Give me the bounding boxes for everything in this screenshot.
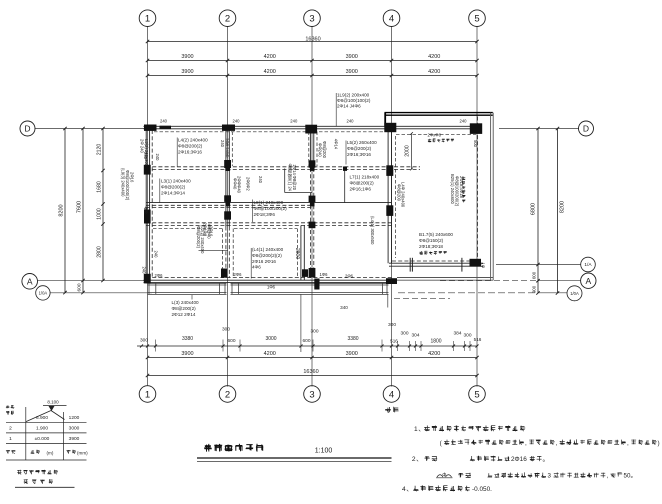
grid bubble 1/0A left xyxy=(36,286,50,300)
svg-text:,: , xyxy=(607,473,609,480)
svg-text:±0.000: ±0.000 xyxy=(35,436,50,442)
grid bubble 5 bottom xyxy=(469,386,486,403)
svg-text:Φ8@200(2): Φ8@200(2) xyxy=(196,226,201,249)
wall right outer (axis 5 side) xyxy=(490,113,492,281)
svg-text:、: 、 xyxy=(418,426,425,433)
svg-text:2Φ16: 2Φ16 xyxy=(129,172,134,183)
svg-text:A: A xyxy=(585,276,591,286)
wall interior axis 4 xyxy=(387,129,389,263)
svg-text:2Φ16 2Φ16: 2Φ16 2Φ16 xyxy=(252,259,276,264)
svg-text:A: A xyxy=(27,276,33,286)
svg-text:1800: 1800 xyxy=(430,339,441,345)
dimension chain 3900/4200/3900/4200 top row1 xyxy=(148,60,478,62)
wall eave line right of axis 4 bottom xyxy=(397,277,493,279)
wall interior axis 2 xyxy=(225,129,227,227)
beam dashed along axis A xyxy=(146,277,392,279)
svg-text:3380: 3380 xyxy=(347,336,358,342)
svg-text:1200: 1200 xyxy=(69,415,80,421)
svg-text:1/A: 1/A xyxy=(584,262,592,268)
svg-text:2Φ6: 2Φ6 xyxy=(155,273,164,278)
svg-text:4200: 4200 xyxy=(428,54,440,60)
svg-text:ΦΦ240: ΦΦ240 xyxy=(318,143,323,157)
svg-text:、: 、 xyxy=(406,486,413,493)
svg-text:6.900: 6.900 xyxy=(36,415,48,421)
beam inner dashed right room left xyxy=(395,136,397,258)
svg-text:2Φ6: 2Φ6 xyxy=(234,272,243,277)
svg-text:Φ8@100(100(2): Φ8@100(100(2) xyxy=(337,98,371,103)
svg-text:2: 2 xyxy=(225,389,230,400)
wall bottom along axis A xyxy=(144,279,398,281)
dimension line 16360 top xyxy=(148,41,478,43)
svg-text:1L9(2) 200x400: 1L9(2) 200x400 xyxy=(337,93,370,98)
svg-text:300: 300 xyxy=(140,338,148,344)
svg-text:3900: 3900 xyxy=(346,54,358,60)
note 3 hanger stirrup symbol xyxy=(436,475,453,478)
svg-text:2Φ14;3Φ14: 2Φ14;3Φ14 xyxy=(161,191,185,196)
grid bubble 1/A right xyxy=(581,257,596,272)
grid line axis 1/0A horizontal right (dashed) xyxy=(398,292,540,294)
beam horizontal y224 xyxy=(146,222,392,224)
beam interior axis 3 lower (dashed) xyxy=(309,168,311,280)
svg-text:Φ8@100/200(2): Φ8@100/200(2) xyxy=(125,170,130,201)
svg-text:Φ8@150(2): Φ8@150(2) xyxy=(419,238,444,243)
svg-text:240: 240 xyxy=(258,176,263,184)
grid line axis 3 vertical xyxy=(311,26,313,387)
beam inner dashed right room top xyxy=(396,133,476,135)
svg-text:240: 240 xyxy=(460,119,468,124)
svg-text:1/0A: 1/0A xyxy=(39,290,48,295)
grid bubble 2 bottom xyxy=(219,386,236,403)
svg-text:600: 600 xyxy=(532,271,537,279)
grid line axis A horizontal right (dashed) xyxy=(440,280,538,282)
dimension chain 2120/1680/1000/2800 left xyxy=(102,129,104,281)
grid line axis D horizontal left xyxy=(35,128,147,130)
svg-text:2ΦxΦ8: 2ΦxΦ8 xyxy=(428,133,442,138)
svg-text:,: , xyxy=(525,440,527,447)
grid line axis 1 vertical xyxy=(147,27,149,386)
note 3 xyxy=(458,473,463,478)
svg-text:240: 240 xyxy=(154,251,159,259)
svg-text:300: 300 xyxy=(400,331,408,337)
svg-text:3380: 3380 xyxy=(182,336,193,342)
dimension line 8200 right xyxy=(557,129,559,294)
svg-text:Φ8@200(2)(2): Φ8@200(2)(2) xyxy=(252,253,282,258)
wall top along axis D xyxy=(144,125,482,127)
svg-text:240: 240 xyxy=(155,154,160,162)
svg-text:8200: 8200 xyxy=(560,201,566,213)
svg-text:2Φ16: 2Φ16 xyxy=(511,456,527,463)
grid bubble 3 top xyxy=(304,10,321,27)
svg-text:3900: 3900 xyxy=(346,351,358,357)
svg-text:D: D xyxy=(24,124,30,134)
svg-text:、: 、 xyxy=(416,456,423,463)
level table texts xyxy=(6,405,9,408)
svg-text:1Φ6: 1Φ6 xyxy=(267,285,276,290)
svg-text:Φ8@200(2): Φ8@200(2) xyxy=(347,146,372,151)
dimension chain 3900/4200/3900/4200 bottom xyxy=(148,357,478,359)
svg-text:B1.7(5) 240x600: B1.7(5) 240x600 xyxy=(419,232,453,237)
svg-text:500: 500 xyxy=(473,140,478,148)
grid line axis A horizontal left xyxy=(38,280,147,282)
svg-text:240: 240 xyxy=(290,119,298,124)
svg-text:-0.050.: -0.050. xyxy=(472,486,492,493)
svg-text:(m): (m) xyxy=(47,451,54,456)
svg-text:。: 。 xyxy=(631,473,637,480)
svg-text:3900: 3900 xyxy=(69,436,80,442)
grid line axis 1/0A horizontal left xyxy=(50,292,152,294)
svg-text:Φ8@100/200(2): Φ8@100/200(2) xyxy=(254,206,288,211)
svg-text:(L9(3) 240x400: (L9(3) 240x400 xyxy=(121,168,126,197)
svg-text:3900: 3900 xyxy=(181,351,193,357)
beam inner dashed verticals middle room xyxy=(231,132,233,167)
svg-text:Φ8@100/200(2): Φ8@100/200(2) xyxy=(454,176,459,207)
svg-text:2Φ0Φ2: 2Φ0Φ2 xyxy=(245,177,250,191)
wall bay window top right (dark) xyxy=(385,112,493,114)
svg-text:4200: 4200 xyxy=(428,351,440,357)
svg-text:3: 3 xyxy=(309,14,314,25)
dimension line 16360 bottom xyxy=(148,375,478,377)
svg-text:4200: 4200 xyxy=(428,69,440,75)
svg-text:5: 5 xyxy=(474,389,479,400)
beam vertical x345 xyxy=(344,168,346,203)
svg-text:2800: 2800 xyxy=(97,246,103,258)
svg-text:1: 1 xyxy=(145,389,150,400)
beam label L4(1) bottom middle room xyxy=(250,248,252,279)
balcony dashed line below right xyxy=(394,297,450,299)
svg-text:4Φ14: 4Φ14 xyxy=(334,139,339,150)
svg-text:2120: 2120 xyxy=(97,144,103,156)
svg-text:2Φ12 2Φ14: 2Φ12 2Φ14 xyxy=(172,312,196,317)
beam inner dashed top rooms xyxy=(154,131,385,133)
svg-text:1:100: 1:100 xyxy=(315,448,333,455)
grid bubble 4 top xyxy=(383,10,400,27)
grid bubble A left xyxy=(22,274,38,290)
drawing title: second floor beam plan xyxy=(204,444,212,452)
svg-text:1Φ6: 1Φ6 xyxy=(320,272,329,277)
grid bubble 1/0A right xyxy=(567,286,582,301)
svg-text:2Φ16;3Φ16: 2Φ16;3Φ16 xyxy=(178,150,202,155)
svg-text:300: 300 xyxy=(388,322,396,328)
svg-text:(L4(1) 300x500: (L4(1) 300x500 xyxy=(370,216,375,245)
level table caption xyxy=(17,470,22,475)
grid bubble D right xyxy=(579,121,594,136)
svg-text:(L4(1) 240x400: (L4(1) 240x400 xyxy=(252,247,284,252)
svg-text:B25(1) 240x600: B25(1) 240x600 xyxy=(450,174,455,204)
grid bubble 1 top xyxy=(139,10,156,27)
svg-text:340: 340 xyxy=(340,305,348,310)
svg-text:8200: 8200 xyxy=(59,204,65,216)
beam inner dashed left wall xyxy=(151,130,153,278)
svg-text:,: , xyxy=(556,440,558,447)
svg-text:1Φ: 1Φ xyxy=(481,263,486,269)
svg-text:2: 2 xyxy=(9,426,12,432)
dimension line 7600/600 left xyxy=(82,129,84,293)
svg-text:): ) xyxy=(658,440,660,447)
svg-text:300: 300 xyxy=(222,327,230,333)
svg-text:600: 600 xyxy=(302,338,310,344)
svg-text:1000: 1000 xyxy=(97,208,103,220)
duct sub-room walls grid2-3 room xyxy=(284,169,286,193)
svg-text:4200: 4200 xyxy=(264,54,276,60)
svg-text:L3(1) 240x400: L3(1) 240x400 xyxy=(161,179,191,184)
beam/wall horizontal y203 xyxy=(146,202,392,204)
svg-text:Φ8@200(2): Φ8@200(2) xyxy=(178,144,203,149)
balcony leader line down xyxy=(387,294,389,307)
svg-text:L8(1) 240x400: L8(1) 240x400 xyxy=(254,200,284,205)
svg-text:Φ8@40: Φ8@40 xyxy=(207,224,212,239)
svg-text:。: 。 xyxy=(543,456,549,463)
svg-text:4: 4 xyxy=(389,389,394,400)
svg-text:240: 240 xyxy=(220,140,225,148)
svg-text:1/0A: 1/0A xyxy=(570,291,579,296)
svg-text:ΦΦ40: ΦΦ40 xyxy=(232,178,237,190)
notes heading shuoming xyxy=(385,407,391,413)
dimension line 6800 right xyxy=(537,129,539,294)
grid bubble 5 top xyxy=(469,10,486,27)
svg-text:4200: 4200 xyxy=(264,351,276,357)
svg-text:240: 240 xyxy=(160,119,168,124)
grid line axis 1/A horizontal right xyxy=(496,264,581,266)
beam horizontal y168 xyxy=(146,166,420,168)
wall interior axis 3 upper xyxy=(309,129,311,168)
columns (concrete, filled) xyxy=(144,125,157,131)
svg-text:2Φ16;1Φ6: 2Φ16;1Φ6 xyxy=(350,187,372,192)
beam inner dashed right wall xyxy=(477,117,479,262)
wall bottom right room along axis 1/A xyxy=(389,262,483,264)
level table roof slope symbol xyxy=(26,411,51,422)
svg-text:(mm): (mm) xyxy=(77,451,88,456)
svg-text:2Φ18;3Φ6: 2Φ18;3Φ6 xyxy=(254,212,276,217)
svg-text:L5(2) 260x400: L5(2) 260x400 xyxy=(347,140,377,145)
svg-text:D: D xyxy=(583,124,589,134)
svg-text:16360: 16360 xyxy=(303,369,318,375)
grid line axis 4 vertical xyxy=(391,26,393,387)
grid bubble 2 top xyxy=(219,10,236,27)
svg-text:1.900: 1.900 xyxy=(36,426,48,432)
wall interior bottom middle room xyxy=(300,226,302,281)
svg-text:2800: 2800 xyxy=(294,248,300,259)
grid line axis 2 vertical xyxy=(227,26,229,387)
svg-text:2Φ14 J4Φ6: 2Φ14 J4Φ6 xyxy=(337,104,361,109)
svg-text:L(3) 240x400: L(3) 240x400 xyxy=(172,300,200,305)
grid bubble D left xyxy=(20,121,35,136)
svg-text:240: 240 xyxy=(233,119,241,124)
svg-text:600: 600 xyxy=(77,283,83,291)
beam interior axis 2 lower (dashed) xyxy=(225,227,227,279)
svg-text:900: 900 xyxy=(532,285,537,293)
svg-text:L4(2) 240x400: L4(2) 240x400 xyxy=(178,138,208,143)
svg-text:1: 1 xyxy=(145,14,150,25)
svg-text:384: 384 xyxy=(453,331,461,337)
svg-text:240: 240 xyxy=(347,119,355,124)
svg-text:3: 3 xyxy=(548,473,552,480)
svg-text:6800: 6800 xyxy=(531,203,537,215)
beam dashed along axis 1/A xyxy=(392,260,480,262)
svg-text:3900: 3900 xyxy=(181,69,193,75)
svg-text:3: 3 xyxy=(309,389,314,400)
grid bubble 3 bottom xyxy=(304,386,321,403)
beam inner dashed insets bottom-middle room xyxy=(232,229,234,277)
svg-text:3900: 3900 xyxy=(346,69,358,75)
svg-text:Φ8@200(2): Φ8@200(2) xyxy=(161,185,186,190)
grid bubble 1 bottom xyxy=(139,386,156,403)
beam inner dashed insets bottom-left room xyxy=(222,229,224,277)
dimension chain detail bottom row1 xyxy=(137,345,477,347)
dimension chain 3900/4200/3900/4200 top row2 xyxy=(148,75,478,77)
svg-text:Φ8@200(2): Φ8@200(2) xyxy=(350,181,375,186)
svg-text:1: 1 xyxy=(9,436,12,442)
svg-text:16360: 16360 xyxy=(305,36,320,42)
svg-text:2: 2 xyxy=(225,14,230,25)
level table lines xyxy=(6,421,87,423)
svg-text:Φ8@200(2): Φ8@200(2) xyxy=(172,306,197,311)
svg-text:2Φ6: 2Φ6 xyxy=(345,274,354,279)
svg-text:600: 600 xyxy=(227,338,235,344)
svg-text:2Φ18;3Φ18: 2Φ18;3Φ18 xyxy=(419,244,443,249)
svg-text:300: 300 xyxy=(310,329,318,335)
svg-text:4: 4 xyxy=(389,14,394,25)
svg-text:,: , xyxy=(627,440,629,447)
svg-text:2000: 2000 xyxy=(405,145,411,157)
svg-text:516: 516 xyxy=(474,337,482,342)
dimension line 8200 left xyxy=(64,129,66,293)
svg-text:7600: 7600 xyxy=(77,201,83,213)
svg-text:2Φ14: 2Φ14 xyxy=(292,165,297,176)
balcony slab bottom left xyxy=(148,282,227,284)
svg-text:300: 300 xyxy=(463,333,471,339)
extension lines from plan to bottom dims xyxy=(155,340,157,352)
grid line axis D horizontal right xyxy=(499,128,579,130)
svg-text:240: 240 xyxy=(143,208,148,216)
grid bubble A right xyxy=(581,273,596,288)
svg-text:5: 5 xyxy=(474,14,479,25)
grid line axis 5 vertical xyxy=(476,26,478,387)
balcony slab bottom middle xyxy=(231,282,389,284)
svg-text:240: 240 xyxy=(142,267,147,275)
svg-text:3000: 3000 xyxy=(265,336,276,342)
svg-text:240: 240 xyxy=(143,152,148,160)
svg-text:3000: 3000 xyxy=(69,426,80,432)
svg-text:8.100: 8.100 xyxy=(47,400,59,405)
svg-text:Φ: Φ xyxy=(442,473,446,479)
svg-text:L7(1) 218x400: L7(1) 218x400 xyxy=(350,175,380,180)
grid bubble 4 bottom xyxy=(383,386,400,403)
svg-text:4200: 4200 xyxy=(264,69,276,75)
svg-text:304: 304 xyxy=(411,333,419,339)
svg-text:4Φ6: 4Φ6 xyxy=(252,265,261,270)
svg-text:1680: 1680 xyxy=(97,181,103,193)
svg-text:Φ8@20: Φ8@20 xyxy=(288,164,293,179)
svg-text:2Φ16;3Φ16: 2Φ16;3Φ16 xyxy=(347,152,371,157)
dim 2000 interior right room xyxy=(411,134,413,170)
column tick marks on 1/A wall xyxy=(409,258,411,272)
svg-text:Φ8@200: Φ8@200 xyxy=(396,184,401,202)
wall left along axis 1 xyxy=(145,126,147,283)
svg-text:3900: 3900 xyxy=(181,54,193,60)
svg-text:516: 516 xyxy=(390,339,398,344)
